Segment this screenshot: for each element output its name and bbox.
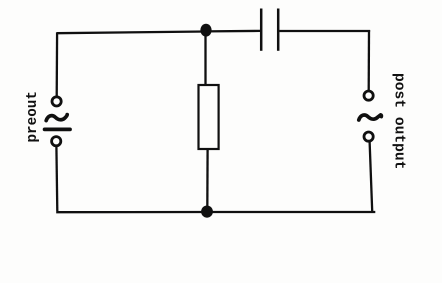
node B junction dot xyxy=(201,206,213,218)
AC tilde symbol right source xyxy=(359,115,382,120)
terminal preout - xyxy=(52,137,61,146)
wire resistor bottom to node B xyxy=(206,149,209,212)
svg-text:post output: post output xyxy=(391,73,407,169)
wire right vertical lower (post output - lead) xyxy=(370,141,373,211)
terminal post output - xyxy=(364,132,373,141)
wire capacitor right to top-right corner xyxy=(279,30,370,32)
capacitor C1 right plate xyxy=(277,9,280,51)
wire bottom-left horizontal xyxy=(56,211,207,213)
resistor R1 xyxy=(199,85,219,149)
wire left vertical lower (preout - lead) xyxy=(55,146,58,211)
AC tilde symbol left source xyxy=(46,115,67,121)
wire bottom-right horizontal (node B to post output -) xyxy=(207,211,375,213)
wire left vertical upper (preout + lead) xyxy=(56,32,59,96)
wire node A to resistor top xyxy=(204,31,206,85)
terminal preout + xyxy=(52,97,61,106)
wire node A to capacitor left xyxy=(206,30,260,33)
node A junction dot xyxy=(200,24,211,37)
terminal post output + xyxy=(364,91,373,100)
wire right vertical upper (post output + lead) xyxy=(368,30,371,91)
wire top-left horizontal (preout + to node A) xyxy=(57,32,206,34)
svg-text:preout: preout xyxy=(25,91,41,142)
capacitor C1 left plate xyxy=(260,9,263,51)
bar under left tilde xyxy=(45,127,70,131)
